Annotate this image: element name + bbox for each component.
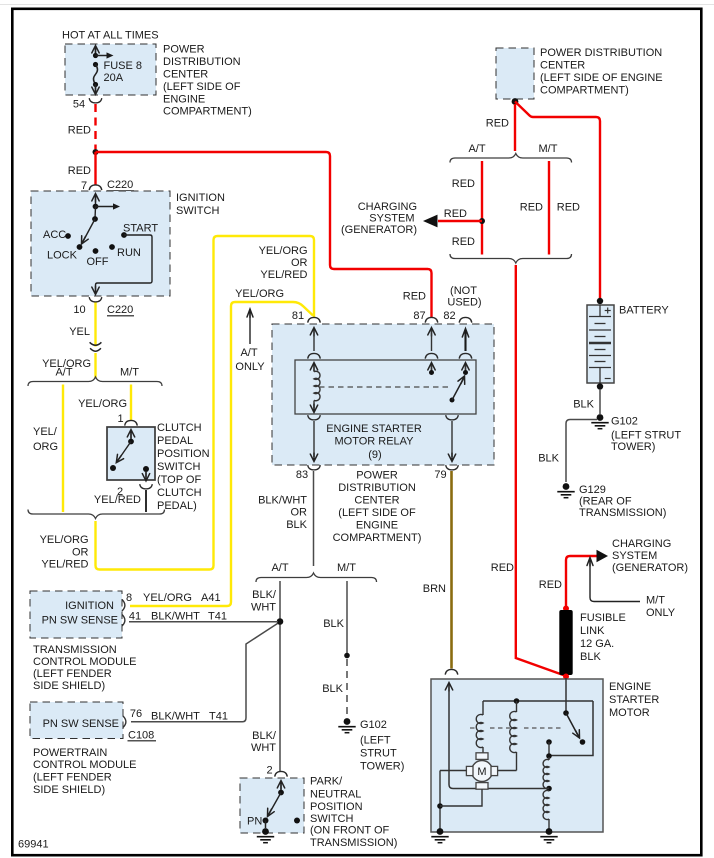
svg-text:SYSTEM: SYSTEM — [369, 213, 414, 225]
svg-text:ONLY: ONLY — [235, 361, 265, 373]
svg-text:TOWER): TOWER) — [360, 761, 404, 773]
svg-text:YEL/RED: YEL/RED — [94, 494, 141, 506]
svg-text:7: 7 — [81, 180, 87, 192]
svg-text:POWERTRAIN: POWERTRAIN — [33, 747, 107, 759]
wire BLK/WHT T41 TCM — [129, 621, 278, 623]
ground at PN switch — [265, 821, 267, 829]
svg-text:DISTRIBUTION: DISTRIBUTION — [163, 56, 241, 68]
wire BLK/WHT pin 83 down — [313, 471, 315, 566]
svg-text:START: START — [123, 223, 158, 235]
svg-text:M/T: M/T — [539, 143, 558, 155]
svg-text:(GENERATOR): (GENERATOR) — [341, 224, 417, 236]
svg-text:87: 87 — [413, 310, 425, 322]
svg-text:IGNITION: IGNITION — [176, 192, 225, 204]
pin 82 entry arrows — [462, 329, 468, 338]
svg-text:82: 82 — [443, 310, 455, 322]
svg-text:ACC: ACC — [43, 229, 66, 241]
contact OFF — [93, 248, 99, 254]
ground at motor — [437, 828, 444, 835]
svg-text:RED: RED — [452, 178, 475, 190]
ground at field coil — [546, 828, 553, 835]
svg-text:SWITCH: SWITCH — [310, 813, 353, 825]
junction node T41 — [277, 618, 284, 625]
pin 87 connector — [425, 317, 438, 322]
svg-text:ENGINE: ENGINE — [609, 681, 651, 693]
wire RED A/T branch — [481, 161, 483, 255]
starter hold-in coil — [516, 701, 518, 712]
PCM pin bracket — [123, 716, 126, 728]
wire bottom brush return — [440, 789, 482, 806]
svg-text:C108: C108 — [128, 730, 154, 742]
fusible link terminal top — [563, 606, 569, 612]
wire BRN relay 79 to starter — [450, 471, 453, 669]
wire BLK M/T branch — [346, 581, 348, 654]
svg-text:BATTERY: BATTERY — [619, 305, 669, 317]
svg-text:RED: RED — [68, 125, 91, 137]
svg-text:(TOP OF: (TOP OF — [157, 474, 201, 486]
svg-text:BLK/WHT: BLK/WHT — [151, 611, 200, 623]
svg-text:RED: RED — [486, 118, 509, 130]
svg-text:(9): (9) — [368, 449, 381, 461]
A/T ONLY arrow annotation — [247, 309, 253, 318]
svg-text:YEL/ORG: YEL/ORG — [235, 288, 284, 300]
svg-text:12 GA.: 12 GA. — [580, 638, 614, 650]
svg-text:69941: 69941 — [18, 839, 49, 851]
starter solenoid feed arrow — [445, 683, 452, 692]
transmission control module box — [30, 591, 122, 638]
svg-text:BLK/: BLK/ — [252, 730, 277, 742]
ignition switch mechanism — [92, 194, 99, 203]
power distribution center box (right) — [496, 48, 534, 99]
svg-text:PN: PN — [247, 816, 262, 828]
svg-text:C220: C220 — [107, 179, 133, 191]
svg-text:YEL/RED: YEL/RED — [41, 559, 88, 571]
wire hold-in coil to brush — [498, 770, 517, 772]
svg-text:STARTER: STARTER — [609, 694, 659, 706]
wire RED PDC to split brace — [514, 104, 516, 151]
pin 10 connector C220 — [89, 297, 102, 302]
svg-text:(LEFT STRUT: (LEFT STRUT — [611, 430, 681, 442]
wire RED junction to ignition pin 7 — [94, 152, 96, 186]
svg-text:HOT AT ALL TIMES: HOT AT ALL TIMES — [62, 30, 159, 42]
svg-text:79: 79 — [434, 469, 446, 481]
svg-text:COMPARTMENT): COMPARTMENT) — [540, 85, 629, 97]
svg-text:OFF: OFF — [87, 256, 109, 268]
svg-text:PEDAL: PEDAL — [157, 435, 193, 447]
svg-text:CONTROL MODULE: CONTROL MODULE — [33, 656, 137, 668]
svg-text:USED): USED) — [447, 297, 481, 309]
svg-text:ORG: ORG — [33, 441, 58, 453]
svg-text:BLK/WHT: BLK/WHT — [258, 495, 307, 507]
wire YEL/ORG A/T branch — [62, 385, 64, 513]
svg-text:PEDAL): PEDAL) — [157, 500, 197, 512]
junction node armature return — [437, 803, 443, 809]
battery + terminal node — [597, 298, 603, 304]
svg-text:A41: A41 — [201, 592, 221, 604]
starter switch contact stub — [546, 739, 552, 745]
svg-text:CHARGING: CHARGING — [358, 201, 417, 213]
svg-text:RED: RED — [444, 208, 467, 220]
svg-text:RUN: RUN — [117, 247, 141, 259]
clutch switch mechanism — [127, 430, 134, 439]
wire YEL/ORG M/T branch to clutch pin 1 — [130, 385, 132, 421]
svg-text:WHT: WHT — [251, 742, 276, 754]
svg-text:TRANSMISSION): TRANSMISSION) — [310, 837, 397, 849]
svg-text:BLK: BLK — [323, 618, 344, 630]
solenoid mechanical dashed link — [470, 727, 477, 729]
junction node below fuse — [93, 149, 99, 155]
starter switch bus right — [549, 701, 593, 756]
svg-text:FUSIBLE: FUSIBLE — [580, 612, 626, 624]
wire BLK/WHT T41 PCM to junction — [131, 624, 278, 722]
svg-text:(LEFT FENDER: (LEFT FENDER — [33, 772, 112, 784]
relay outer box (PDC) — [272, 324, 494, 465]
power distribution center box (fuse 8) — [65, 44, 156, 95]
contact ACC — [65, 233, 71, 239]
svg-text:A/T: A/T — [240, 347, 257, 359]
powertrain control module box — [30, 702, 123, 739]
svg-text:M/T: M/T — [337, 562, 356, 574]
svg-text:2: 2 — [266, 765, 272, 777]
svg-text:G102: G102 — [360, 719, 387, 731]
wire START to pin 10 — [96, 235, 153, 291]
svg-text:PARK/: PARK/ — [310, 776, 343, 788]
svg-text:WHT: WHT — [251, 602, 276, 614]
starter solenoid top bus — [483, 700, 593, 702]
svg-text:41: 41 — [129, 611, 141, 623]
svg-text:COMPARTMENT): COMPARTMENT) — [333, 532, 422, 544]
svg-text:FUSE 8: FUSE 8 — [104, 60, 143, 72]
wire fusible link into starter — [565, 678, 567, 712]
brace merge (PDC) — [450, 254, 572, 263]
brace merge A/T-M/T above TCM — [28, 510, 165, 519]
svg-text:(NOT: (NOT — [450, 285, 477, 297]
starter switch lever — [563, 710, 569, 716]
svg-text:YEL/: YEL/ — [33, 426, 58, 438]
brace split A/T-M/T (PDC) — [450, 154, 572, 163]
svg-text:POWER: POWER — [356, 470, 398, 482]
ground G102 (M/T) — [344, 718, 351, 725]
svg-text:RED: RED — [539, 579, 562, 591]
pin 82 connector — [459, 317, 472, 322]
pin 81 entry arrows — [310, 328, 317, 337]
svg-text:ENGINE STARTER: ENGINE STARTER — [326, 423, 422, 435]
svg-text:SWITCH: SWITCH — [157, 461, 200, 473]
svg-text:OR: OR — [291, 257, 308, 269]
junction node BLK — [344, 653, 350, 659]
ground G129 — [563, 483, 570, 490]
svg-text:COMPARTMENT): COMPARTMENT) — [163, 106, 252, 118]
svg-text:T41: T41 — [208, 611, 227, 623]
clutch pedal position switch box — [107, 427, 155, 480]
starter feed connector — [445, 669, 458, 674]
svg-text:OR: OR — [291, 507, 308, 519]
svg-text:RED: RED — [452, 236, 475, 248]
svg-text:8: 8 — [126, 592, 132, 604]
engine starter motor box — [431, 679, 603, 832]
svg-text:M/T: M/T — [120, 367, 139, 379]
svg-text:SIDE SHIELD): SIDE SHIELD) — [33, 784, 105, 796]
relay inner body box — [295, 360, 476, 414]
fuse F8 element — [95, 49, 97, 58]
svg-text:DISTRIBUTION: DISTRIBUTION — [338, 482, 416, 494]
svg-text:POWER DISTRIBUTION: POWER DISTRIBUTION — [540, 47, 662, 59]
contact RUN — [109, 244, 115, 250]
junction node PDC output — [512, 98, 519, 105]
svg-text:BLK/WHT: BLK/WHT — [151, 711, 200, 723]
svg-text:SWITCH: SWITCH — [176, 205, 219, 217]
svg-text:TOWER): TOWER) — [611, 441, 655, 453]
wire YEL/ORG-YEL/RED loop to relay pin 81 — [96, 236, 315, 570]
M/T ONLY arrow annotation — [590, 561, 640, 602]
svg-text:A/T: A/T — [468, 143, 485, 155]
wire BLK battery to ground — [599, 389, 601, 414]
svg-text:BRN: BRN — [423, 583, 446, 595]
svg-text:A/T: A/T — [271, 562, 288, 574]
svg-text:CLUTCH: CLUTCH — [157, 422, 202, 434]
wire BLK branch to G129 — [566, 420, 597, 483]
svg-text:CENTER: CENTER — [354, 495, 399, 507]
clutch switch contact pin 2 — [143, 466, 149, 472]
svg-text:RED: RED — [557, 202, 580, 214]
ground G102 (battery) — [597, 414, 604, 421]
contact LOCK — [77, 244, 83, 250]
svg-text:RED: RED — [491, 562, 514, 574]
svg-text:M: M — [477, 766, 486, 778]
svg-text:YEL/ORG: YEL/ORG — [40, 534, 89, 546]
pin 81 connector — [308, 317, 321, 322]
wire YEL/ORG A41 TCM to relay pin 81 — [130, 302, 313, 606]
fusible link terminal bottom — [563, 674, 569, 680]
svg-text:MOTOR: MOTOR — [609, 707, 650, 719]
svg-text:A/T: A/T — [55, 367, 72, 379]
TCM pin brackets — [122, 600, 125, 612]
svg-text:(LEFT FENDER: (LEFT FENDER — [33, 668, 112, 680]
wire RED M/T branch — [548, 161, 550, 255]
pin 2 connector — [140, 484, 153, 489]
svg-text:G129: G129 — [579, 484, 606, 496]
svg-text:PN SW SENSE: PN SW SENSE — [43, 718, 119, 730]
svg-text:STRUT: STRUT — [360, 748, 397, 760]
wire BLK/WHT A/T branch — [279, 581, 281, 771]
contact START — [121, 232, 127, 238]
svg-text:LOCK: LOCK — [47, 250, 78, 262]
svg-text:ENGINE: ENGINE — [356, 520, 398, 532]
starter field coil lower — [543, 791, 549, 820]
svg-text:LINK: LINK — [580, 625, 605, 637]
wire BLK dashed to ground — [346, 659, 348, 718]
wire RED fusible link to charging system — [566, 556, 597, 607]
svg-text:M/T: M/T — [646, 595, 665, 607]
PN switch mechanism — [277, 781, 284, 790]
svg-text:TRANSMISSION): TRANSMISSION) — [579, 507, 666, 519]
wire YEL/RED clutch pin 2 to merge — [145, 490, 147, 512]
svg-text:MOTOR RELAY: MOTOR RELAY — [334, 436, 414, 448]
brace split A/T-M/T below ignition — [28, 377, 162, 386]
battery + stem and sign — [599, 305, 601, 316]
svg-text:POSITION: POSITION — [157, 448, 210, 460]
svg-text:RED: RED — [403, 291, 426, 303]
svg-text:T41: T41 — [209, 711, 228, 723]
svg-text:76: 76 — [130, 708, 142, 720]
fusible link 12 GA BLK — [559, 610, 572, 675]
motor M — [472, 761, 493, 782]
inline connector (double arc) — [90, 342, 102, 345]
svg-text:81: 81 — [292, 310, 304, 322]
svg-text:CHARGING: CHARGING — [612, 538, 671, 550]
pin 87 entry arrows — [428, 328, 435, 337]
relay switch lever — [450, 398, 455, 403]
wire RED dashed fuse-to-junction — [94, 104, 96, 149]
svg-text:BLK: BLK — [322, 683, 343, 695]
starter field coil upper — [548, 757, 550, 760]
svg-text:RED: RED — [68, 165, 91, 177]
svg-text:YEL/ORG: YEL/ORG — [143, 592, 192, 604]
svg-text:BLK: BLK — [538, 453, 559, 465]
svg-text:SYSTEM: SYSTEM — [612, 550, 657, 562]
junction node hold-in coil — [514, 698, 520, 704]
svg-text:POSITION: POSITION — [310, 801, 363, 813]
brace split A/T-M/T below pin 83 — [256, 573, 377, 582]
svg-text:IGNITION: IGNITION — [65, 600, 114, 612]
svg-text:(LEFT SIDE OF: (LEFT SIDE OF — [338, 507, 416, 519]
park/neutral position switch box — [240, 778, 304, 833]
svg-text:BLK: BLK — [286, 519, 307, 531]
relay coil — [314, 371, 320, 400]
svg-text:C220: C220 — [107, 304, 133, 316]
svg-text:OR: OR — [72, 547, 89, 559]
svg-text:YEL/ORG: YEL/ORG — [259, 245, 308, 257]
svg-text:RED: RED — [520, 202, 543, 214]
svg-text:G102: G102 — [611, 416, 638, 428]
starter field tap node — [546, 786, 552, 792]
svg-text:(LEFT: (LEFT — [360, 735, 391, 747]
svg-text:83: 83 — [296, 469, 308, 481]
junction node charging tap — [479, 218, 485, 224]
svg-text:CLUTCH: CLUTCH — [157, 487, 202, 499]
wire YEL ignition to inline connector — [94, 303, 96, 347]
battery body — [587, 305, 614, 383]
svg-text:BLK: BLK — [573, 399, 594, 411]
svg-text:CENTER: CENTER — [163, 69, 208, 81]
ignition switch box — [31, 191, 170, 296]
wire RED PDC to battery — [515, 102, 600, 300]
svg-text:54: 54 — [73, 99, 85, 111]
svg-text:(LEFT SIDE OF: (LEFT SIDE OF — [163, 81, 241, 93]
svg-text:BLK: BLK — [580, 651, 601, 663]
svg-text:BLK/: BLK/ — [252, 589, 277, 601]
wire left brush to ground — [440, 770, 466, 772]
svg-text:YEL: YEL — [69, 326, 90, 338]
svg-text:YEL/ORG: YEL/ORG — [78, 398, 127, 410]
svg-text:(ON FRONT OF: (ON FRONT OF — [310, 825, 390, 837]
svg-text:NEUTRAL: NEUTRAL — [310, 789, 361, 801]
svg-text:ENGINE: ENGINE — [163, 94, 205, 106]
svg-text:20A: 20A — [104, 72, 124, 84]
wire RED junction to relay pin 87 — [96, 152, 432, 317]
svg-text:(GENERATOR): (GENERATOR) — [612, 562, 688, 574]
battery - terminal node — [597, 383, 603, 389]
relay coil dashed link — [319, 386, 448, 388]
svg-text:1: 1 — [117, 413, 123, 425]
svg-text:CENTER: CENTER — [540, 60, 585, 72]
relay common exit — [446, 415, 459, 420]
svg-text:PN SW SENSE: PN SW SENSE — [42, 615, 118, 627]
svg-text:ONLY: ONLY — [646, 607, 676, 619]
svg-text:YEL/RED: YEL/RED — [260, 269, 307, 281]
svg-text:10: 10 — [73, 304, 85, 316]
PN switch open contact — [294, 818, 300, 824]
svg-text:(LEFT SIDE OF ENGINE: (LEFT SIDE OF ENGINE — [540, 72, 663, 84]
svg-text:POWER: POWER — [163, 44, 205, 56]
svg-text:TRANSMISSION: TRANSMISSION — [33, 644, 117, 656]
battery - stem and sign — [599, 368, 601, 383]
svg-text:CONTROL MODULE: CONTROL MODULE — [33, 759, 137, 771]
wire YEL/ORG connector to split — [94, 353, 96, 378]
svg-text:(REAR OF: (REAR OF — [579, 496, 632, 508]
battery plates — [589, 316, 611, 318]
starter pull-in coil — [482, 701, 484, 715]
relay coil exit to pin 83 — [308, 415, 321, 420]
svg-text:SIDE SHIELD): SIDE SHIELD) — [33, 680, 105, 692]
wire RED merged to fusible link — [516, 265, 566, 676]
wire RED to charging system — [438, 220, 482, 222]
